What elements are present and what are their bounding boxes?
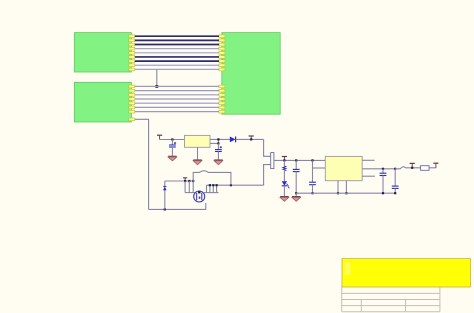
- inductor L1 (hop on output wire): [395, 167, 420, 169]
- ground GND2: [193, 160, 202, 165]
- wire bus top: wire 2: [135, 39, 219, 41]
- node: junction bottom rail at C5: [311, 192, 313, 194]
- power port VCC5: [433, 163, 438, 168]
- wire bus top: wire 8: [135, 64, 219, 66]
- wire bus top: wire 4: [135, 48, 219, 50]
- connector J2 (bottom-left green block): [74, 82, 135, 122]
- ground GND1: [168, 156, 177, 161]
- wire: stub C5 net to U2 pin 2: [313, 167, 326, 169]
- node: junction output at C7: [394, 168, 396, 170]
- wire: U2 ground pin 1: [337, 181, 339, 194]
- wire: diode cathode to corner: [236, 138, 264, 140]
- switch S1 (body): [271, 153, 274, 169]
- power port VCC1 (input rail): [157, 135, 162, 139]
- node: junction bottom rail: [164, 208, 166, 210]
- wire: U1 output pin 1: [210, 138, 230, 140]
- node: wire B junction 2: [212, 184, 214, 186]
- node: junction bottom rail at U2 pin 1: [337, 192, 339, 194]
- node: junction bottom rail at C4/GND5: [295, 192, 297, 194]
- node: wire A junction 3: [192, 180, 194, 182]
- wire: drop from wire 9 to lower bus: [156, 69, 158, 86]
- node: wire B junction 3: [216, 184, 218, 186]
- node: junction at VCC2: [250, 138, 252, 140]
- wire B: motor combs to switch: [207, 184, 264, 186]
- motor left comb pins: [185, 181, 195, 193]
- ground GND4: [280, 197, 289, 202]
- capacitor C7: [392, 169, 399, 193]
- wire: U2 NC stub lower right: [362, 175, 375, 177]
- node: junction at VCC4: [411, 167, 413, 169]
- node: junction bottom rail at C7: [394, 192, 396, 194]
- resistor R2 (horizontal): [421, 166, 430, 171]
- wire bus bottom: wire 7: [135, 111, 219, 113]
- node: junction output at C6: [382, 168, 384, 170]
- wire: bottom return rail: [149, 203, 206, 209]
- wire: switch lower-left pin down to wire B: [264, 165, 271, 186]
- wire: corner down to switch top pin: [264, 139, 271, 156]
- wire bus top: wire 1: [135, 35, 219, 37]
- node: wire B junction with wire C: [230, 184, 232, 186]
- wire bus top: wire 7: [135, 60, 219, 62]
- motor right comb pins: [203, 185, 218, 192]
- wire bus bottom: wire 4: [135, 98, 219, 100]
- node: junction bottom rail at U2 pin 2: [345, 192, 347, 194]
- wire bus top: wire 5: [135, 52, 219, 54]
- capacitor C4: [293, 160, 300, 193]
- wire: U2 output: [362, 168, 395, 170]
- wire C: hop wire from wire A to wire B: [193, 171, 231, 186]
- node: junction input rail: [171, 138, 173, 140]
- voltage regulator U1: [185, 135, 211, 147]
- power port VCC2: [249, 136, 254, 139]
- diode D1: [230, 137, 236, 143]
- wire: U2 ground pin 2: [345, 181, 347, 194]
- title block (yellow header): [342, 259, 471, 287]
- DC-DC module U2: [325, 156, 362, 180]
- title block faint text: [345, 262, 351, 275]
- node: junction output 2: [217, 142, 219, 144]
- capacitor C6: [380, 169, 387, 193]
- wire bus bottom: wire 6: [135, 106, 219, 108]
- diode D3 (small, pointing up, on vertical branch): [163, 186, 167, 190]
- wire: switch output rail to U2: [274, 159, 325, 161]
- wire: U1 ground pin: [197, 147, 199, 160]
- title block table: [342, 287, 440, 312]
- wire bus bottom: wire 1: [135, 85, 219, 87]
- node: wire A junction 2: [188, 180, 190, 182]
- wire A: horizontal to motor pins: [165, 180, 194, 182]
- power port VCC3: [282, 157, 287, 161]
- ground GND3: [214, 160, 223, 165]
- node: junction output 1: [217, 138, 219, 140]
- wire: tie between output pins: [217, 139, 219, 143]
- wire: U1 output pin 2: [210, 142, 218, 144]
- wire: vertical branch with diode up to wire A: [164, 181, 166, 209]
- wire: input rail to regulator U1: [160, 139, 185, 141]
- ground GND5: [292, 197, 301, 202]
- node: junction rail at C4 branch: [295, 159, 297, 161]
- capacitor C5 (bypass at U2 input): [309, 160, 316, 193]
- connector J3 (right green block): [219, 33, 280, 115]
- node: junction bottom rail at C6: [382, 192, 384, 194]
- wire: J2 pin 8 L-wire down left side: [135, 119, 149, 209]
- node: wire A junction 1: [184, 180, 186, 182]
- motor M1 (circle with rotor symbol): [194, 191, 205, 202]
- wire bus bottom: wire 5: [135, 102, 219, 104]
- capacitor C1 (polarized, input): [169, 140, 176, 157]
- wire: stub to GND5: [295, 193, 297, 196]
- node: junction rail at LED branch: [283, 159, 285, 161]
- node: wire B junction 1: [209, 184, 211, 186]
- wire bus bottom: wire 3: [135, 94, 219, 96]
- connector J1 (top-left green block): [74, 33, 135, 72]
- wire bus bottom: wire 2: [135, 90, 219, 92]
- wire bus top: wire 6: [135, 56, 219, 58]
- wire: bottom ground rail: [296, 192, 395, 194]
- wire bus top: wire 9: [135, 68, 219, 70]
- power port VCC4: [410, 163, 415, 167]
- LED D2: [282, 181, 290, 196]
- resistor R1 (vertical, LED branch): [283, 160, 286, 181]
- node: junction on lower bus wire 1: [155, 85, 158, 88]
- wire: U2 NC stub top right: [362, 159, 374, 161]
- wire: R2 to VCC5: [429, 167, 436, 169]
- capacitor C2 (polarized, output): [215, 143, 222, 160]
- wire bus top: wire 3: [135, 44, 219, 46]
- node: junction rail at C5 branch: [311, 159, 313, 161]
- power port VCC (above wire A): [183, 178, 187, 181]
